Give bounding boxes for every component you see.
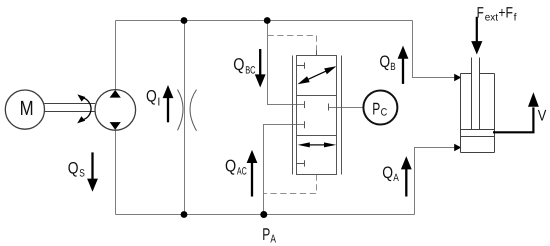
valve right rail [341,56,343,175]
svg-text:M: M [20,97,34,120]
svg-text:C: C [381,107,388,119]
svg-text:V: V [538,107,547,124]
leakage orifice arcs [178,90,184,131]
svg-text:Q: Q [225,156,236,175]
svg-text:Q: Q [233,55,244,74]
shaft [44,104,95,112]
piston [461,130,495,137]
cylinder cap top with rod gap [461,73,495,75]
svg-text:f: f [514,12,517,24]
valve left rail [292,56,294,175]
valve top section blocked port [297,62,305,68]
wire pump bottom riser [115,130,117,214]
velocity arrow V [493,107,533,132]
valve centre blocked port left upper [304,101,306,108]
valve bottom section double arrow [309,144,325,146]
svg-text:Q: Q [68,159,79,177]
wire QA branch to cylinder [415,148,456,215]
wire bottom bus [116,214,415,216]
valve centre blocked port left lower [304,121,306,128]
svg-text:Q: Q [146,88,157,106]
flow arrow QBC down [259,49,261,75]
svg-text:S: S [79,167,85,179]
svg-text:AC: AC [237,166,247,178]
svg-text:ext: ext [485,12,498,24]
pump triangle down [110,122,121,130]
valve centre blocked port right [328,104,330,111]
svg-text:B: B [390,61,395,73]
svg-text:P: P [262,225,270,244]
force arrow Fext down [476,17,478,42]
flow arrow QS down [91,152,93,179]
pump P circle [95,90,136,131]
svg-text:l: l [158,96,160,108]
piston rod [472,58,480,130]
node PA junction [260,211,267,218]
node junction top 1 [181,17,188,24]
wire pump top riser [115,21,117,90]
cylinder barrel left wall [460,74,462,153]
node junction top 2 [264,17,271,24]
gauge Pc circle [363,91,397,125]
wire valve to Pc gauge [329,107,364,109]
rotation arrow [83,98,91,120]
valve envelope box [297,56,337,175]
svg-text:A: A [393,172,399,184]
valve top section variable arrow [303,69,331,82]
valve bottom section blocked port [297,160,305,166]
wire QB branch to cylinder [413,21,456,78]
cylinder cap bottom [461,152,495,154]
wire QAC branch to valve port [264,125,305,215]
svg-text:+F: +F [498,4,513,21]
pilot line dashed bottom [264,175,317,194]
flow arrow QAC up [251,162,253,196]
wire top bus [116,20,413,22]
cylinder barrel right wall [494,74,496,153]
arrowhead into cylinder port A [454,144,461,152]
wire QBC branch to valve port [268,21,305,105]
node junction bottom 1 [181,211,188,218]
pilot line dashed top [268,36,317,51]
svg-text:BC: BC [245,64,256,76]
flow arrow QA up [405,169,407,197]
svg-text:A: A [270,234,276,246]
flow arrow Ql up [167,98,169,123]
wire leakage branch Ql [184,21,186,215]
pump triangle up [110,90,121,98]
flow arrow QB up [402,58,404,84]
arrowhead into cylinder port B [454,74,461,82]
svg-text:Q: Q [382,164,393,182]
valve section dividers [297,96,337,136]
valve top pilot stub [316,51,318,56]
motor M circle [5,90,44,129]
svg-text:Q: Q [379,53,390,71]
svg-text:P: P [372,100,380,119]
